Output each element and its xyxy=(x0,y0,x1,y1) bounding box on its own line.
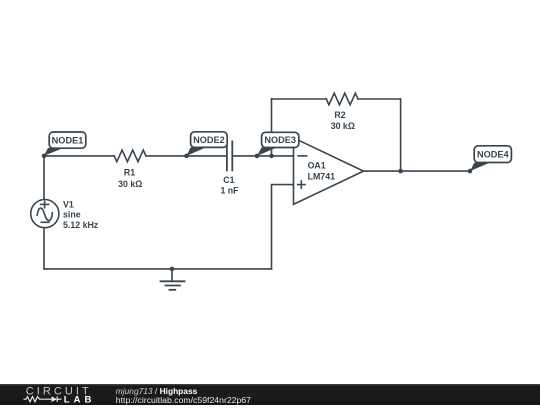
wire output xyxy=(364,170,471,172)
label R1 value xyxy=(118,167,142,189)
wire main horizontal left (NODE1 to R1) xyxy=(44,155,114,157)
junction output-feedback xyxy=(398,169,403,174)
svg-text:LM741: LM741 xyxy=(308,172,335,182)
wire non-inverting input path xyxy=(272,185,294,269)
capacitor C1 plates xyxy=(226,141,228,170)
ground symbol xyxy=(161,269,185,290)
V1 minus sign xyxy=(41,221,49,223)
svg-text:NODE3: NODE3 xyxy=(264,135,296,145)
svg-text:30 kΩ: 30 kΩ xyxy=(331,121,355,131)
node NODE2 anchor dot xyxy=(184,154,189,159)
wire left vertical through V1 xyxy=(43,156,45,269)
svg-text:sine: sine xyxy=(63,210,81,220)
svg-text:5.12 kHz: 5.12 kHz xyxy=(63,220,99,230)
label V1 value xyxy=(63,199,99,230)
svg-text:OA1: OA1 xyxy=(308,161,326,171)
junction dots xyxy=(42,154,473,272)
svg-text:V1: V1 xyxy=(63,199,74,209)
op-amp plus input symbol xyxy=(298,181,305,188)
junction ground tap xyxy=(170,267,175,272)
wire feedback right vertical xyxy=(400,99,402,171)
svg-text:C1: C1 xyxy=(223,175,234,185)
svg-text:R2: R2 xyxy=(334,110,345,120)
svg-text:NODE1: NODE1 xyxy=(52,135,84,145)
wire feedback left vertical xyxy=(271,99,273,156)
wire feedback top left xyxy=(272,98,327,100)
node flag NODE1 xyxy=(44,132,86,156)
node NODE4 anchor dot xyxy=(468,169,473,174)
op-amp minus input symbol xyxy=(298,155,306,157)
svg-text:R1: R1 xyxy=(124,167,135,177)
node flag NODE2 xyxy=(187,132,228,156)
op-amp OA1 triangle xyxy=(294,138,364,205)
svg-text:NODE4: NODE4 xyxy=(477,150,510,160)
resistor R1 30k zigzag xyxy=(114,150,146,162)
svg-text:http://circuitlab.com/c59f24nr: http://circuitlab.com/c59f24nr22p67 xyxy=(116,395,251,405)
node flag NODE3 xyxy=(257,132,299,156)
label C1 value xyxy=(220,175,239,195)
svg-text:NODE2: NODE2 xyxy=(193,135,225,145)
node flag NODE4 xyxy=(470,146,511,171)
resistor R2 30k zigzag xyxy=(326,93,358,105)
footer bar xyxy=(0,384,540,406)
node NODE1 anchor dot xyxy=(42,154,47,159)
svg-text:LAB: LAB xyxy=(64,395,96,406)
wire feedback top right xyxy=(358,98,401,100)
V1 sine wave xyxy=(37,208,52,221)
wire C1 to op-amp inverting input xyxy=(232,155,293,157)
label R2 value xyxy=(331,110,355,131)
V1 plus sign xyxy=(41,201,49,207)
junction feedback-input xyxy=(269,154,274,159)
label OA1 LM741 xyxy=(308,161,335,182)
node NODE3 anchor dot xyxy=(255,154,260,159)
logo resistor-diode glyph xyxy=(24,396,62,402)
svg-text:30 kΩ: 30 kΩ xyxy=(118,179,142,189)
voltage source V1 circle xyxy=(31,200,59,228)
svg-text:1 nF: 1 nF xyxy=(220,186,239,196)
wire R1 to C1 xyxy=(146,155,227,157)
wire bottom horizontal xyxy=(44,268,272,270)
